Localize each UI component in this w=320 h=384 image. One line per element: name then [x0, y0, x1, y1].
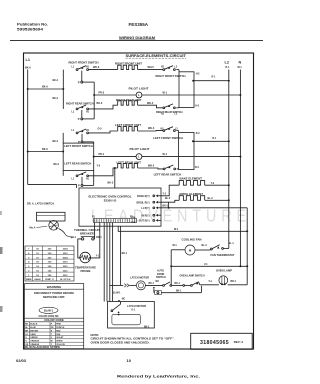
svg-text:BL/W-1: BL/W-1 — [113, 293, 122, 295]
svg-text:OVEN LAMP: OVEN LAMP — [216, 269, 232, 273]
door latch cam mechanism — [49, 221, 59, 231]
svg-text:DISCONNECT POWER BEFORE: DISCONNECT POWER BEFORE — [34, 291, 74, 295]
svg-text:BLUE: BLUE — [30, 327, 36, 329]
wire BK-1 from control down to latch motor — [121, 226, 128, 285]
header model number FES355A — [129, 22, 149, 27]
node L1 label — [25, 58, 31, 69]
svg-text:COLOR CODE: COLOR CODE — [44, 318, 64, 322]
switch box A right front switch text — [156, 74, 186, 78]
svg-text:P: P — [78, 140, 80, 144]
svg-text:RIGHT REAR SWITCH: RIGHT REAR SWITCH — [66, 101, 94, 105]
resistor right rear surface unit — [118, 101, 138, 105]
wire connector to thermal breaker — [94, 223, 96, 239]
latch assembly box — [108, 302, 155, 329]
wire bake element to L2 bus — [205, 183, 230, 186]
svg-text:LEFT REAR SWITCH: LEFT REAR SWITCH — [154, 172, 182, 176]
svg-text:W-1: W-1 — [163, 153, 168, 156]
svg-text:BK-1: BK-1 — [175, 283, 181, 285]
svg-text:BK-2: BK-2 — [108, 182, 114, 185]
svg-text:NOTE:: NOTE: — [91, 333, 100, 337]
svg-text:OUT R(Y): OUT R(Y) — [139, 220, 150, 223]
wire right front switch to unit — [89, 66, 118, 69]
svg-text:BK-2: BK-2 — [53, 98, 59, 100]
svg-text:BK-1: BK-1 — [149, 283, 155, 285]
svg-text:7 RB: 7 RB — [131, 222, 136, 224]
svg-text:OVEN LAMP SWITCH: OVEN LAMP SWITCH — [180, 273, 205, 277]
svg-text:BL-3: BL-3 — [202, 245, 208, 247]
svg-text:BK-6: BK-6 — [42, 148, 48, 151]
svg-text:LEFT FRONT SWITCH: LEFT FRONT SWITCH — [153, 136, 183, 140]
label BL/W-1 at bundle — [113, 293, 122, 295]
header WIRING DIAGRAM title — [119, 35, 156, 40]
svg-text:02/03: 02/03 — [16, 358, 27, 363]
resistor left front surface unit — [118, 127, 138, 131]
wire box B2 to L2 bus — [192, 138, 230, 142]
door latch squiggle arrow — [59, 229, 74, 239]
footer rendered-by line — [117, 375, 200, 379]
wire bundle from connector to latch assembly — [104, 223, 112, 302]
wire P rear left group to pilot rail — [83, 171, 94, 186]
label BK-3 left group — [54, 164, 60, 166]
fan thermostat label — [211, 253, 235, 257]
svg-text:ORANGE: ORANGE — [30, 343, 39, 346]
svg-text:318045065: 318045065 — [200, 340, 229, 346]
label BK-2 near right group lower — [53, 98, 59, 100]
svg-text:5995365694: 5995365694 — [17, 27, 44, 32]
svg-text:RED: RED — [56, 330, 61, 332]
wire bake relay to bake element — [161, 185, 179, 196]
svg-text:BK-3: BK-3 — [97, 102, 103, 105]
switch S1 pilot terminal P (front) — [78, 71, 83, 85]
svg-text:P: P — [78, 184, 80, 188]
lamp pilot light left — [136, 154, 142, 160]
svg-text:3321: 3321 — [63, 266, 69, 268]
svg-text:L1: L1 — [26, 58, 30, 62]
wire gauge table — [25, 246, 74, 281]
auto door switch Q1 — [163, 282, 172, 286]
wire P front to pilot rail — [83, 81, 94, 83]
svg-text:3321: 3321 — [63, 270, 69, 272]
svg-text:BK-3: BK-3 — [54, 164, 60, 166]
svg-text:TEMP °C: TEMP °C — [45, 279, 55, 281]
label BK-2 left group — [53, 141, 59, 143]
connector chevrons before latch motor — [124, 284, 129, 288]
watermark LEADVENTURE — [91, 206, 251, 226]
wire right rear unit to L2 switch — [138, 102, 163, 108]
oven lamp LP1 — [219, 276, 228, 285]
svg-text:3321: 3321 — [63, 253, 69, 255]
switch box B2 left rear switch text — [154, 172, 182, 176]
svg-text:OVEN DOOR CLOSED AND UNLOCKED.: OVEN DOOR CLOSED AND UNLOCKED. — [91, 340, 150, 344]
door latch switch body — [37, 212, 66, 221]
switch S3 L2-side contact — [161, 127, 179, 132]
header publication number text — [17, 22, 48, 32]
colour code table — [25, 322, 84, 349]
switch S4 left rear switch (left half) — [72, 172, 90, 181]
part number box — [191, 333, 253, 349]
latch motor M2 label — [130, 276, 149, 280]
wire oven lamp to right rail — [228, 281, 248, 285]
nc loop below lamp switch — [153, 286, 202, 295]
oven lamp switch Q2 — [183, 282, 200, 287]
svg-text:RIGHT FRONT SWITCH: RIGHT FRONT SWITCH — [156, 74, 186, 78]
svg-text:SWITCH: SWITCH — [156, 276, 166, 279]
wire probe to connector Y-1 — [90, 223, 100, 258]
wire cooling fan branch — [171, 245, 185, 250]
wire left rail of right switch group — [62, 70, 64, 109]
switch S4 pilot terminal P (rear) — [78, 177, 83, 188]
svg-text:W: W — [51, 341, 53, 343]
svg-text:BAKE ELEMENT: BAKE ELEMENT — [180, 177, 203, 181]
svg-text:WARNING: WARNING — [47, 285, 62, 289]
svg-text:Y-5: Y-5 — [97, 165, 101, 168]
svg-text:LEFT FRONT SWITCH: LEFT FRONT SWITCH — [64, 144, 93, 148]
svg-text:WH-2: WH-2 — [148, 165, 155, 168]
svg-text:BL-1: BL-1 — [229, 243, 235, 245]
svg-text:CIRCUIT SHOWN WITH ALL CONTROL: CIRCUIT SHOWN WITH ALL CONTROLS SET TO “… — [91, 337, 175, 341]
switch box B left rear switch text — [64, 162, 91, 166]
svg-text:GAGE: GAGE — [34, 278, 41, 281]
switch box B left front switch text — [64, 144, 93, 148]
label BK-2 near right group upper — [53, 80, 59, 82]
wire L1 relay feed across to right rail — [161, 202, 247, 209]
svg-text:RIGHT REAR SWITCH: RIGHT REAR SWITCH — [156, 110, 183, 114]
latch assembly inner cam box — [112, 314, 140, 325]
svg-text:ES300 US: ES300 US — [104, 199, 117, 203]
latch assembly label — [127, 304, 146, 311]
switch S2 L2-side contact — [161, 104, 178, 116]
svg-text:BK-1: BK-1 — [176, 290, 182, 292]
wire pilot rail vertical — [93, 82, 95, 119]
latch assembly switch — [111, 302, 121, 312]
svg-text:WIRE: WIRE — [26, 279, 32, 281]
svg-text:Rendered by LeadVenture, Inc.: Rendered by LeadVenture, Inc. — [117, 375, 200, 379]
latch motor M2 — [129, 281, 162, 290]
svg-text:VIOLET: VIOLET — [56, 337, 64, 339]
lamp pilot light right — [136, 92, 142, 98]
resistor right front unit label — [115, 62, 142, 66]
svg-text:P: P — [78, 117, 80, 121]
svg-text:UL STYLE: UL STYLE — [60, 279, 71, 281]
thermal circuit breaker CB1 label — [74, 228, 100, 235]
svg-text:3321: 3321 — [63, 262, 69, 264]
svg-text:GREEN: GREEN — [30, 337, 38, 339]
wire W-1 from control to right rail — [118, 226, 248, 232]
svg-text:BROIL R(Y): BROIL R(Y) — [137, 201, 150, 204]
lamp pilot light (left) label — [130, 147, 150, 151]
svg-text:BROWN: BROWN — [30, 330, 38, 332]
wire V-1 neutral tie — [170, 264, 248, 267]
footer date — [16, 358, 27, 363]
svg-text:WH-4: WH-4 — [147, 102, 154, 105]
wire pilot light circuit PR-3 — [94, 92, 241, 96]
svg-text:FES355A: FES355A — [129, 22, 149, 27]
label BK-1 latch box — [144, 326, 150, 328]
svg-text:10: 10 — [127, 358, 132, 363]
warning and colour code block frame — [25, 284, 84, 349]
electronic oven control box U1 — [79, 188, 161, 226]
wire left front unit to L2 switch — [138, 127, 163, 131]
svg-text:N: N — [239, 61, 242, 65]
svg-text:BL/W-1: BL/W-1 — [44, 308, 54, 312]
svg-text:LATCH MOTOR: LATCH MOTOR — [130, 276, 149, 280]
svg-text:GRAY: GRAY — [30, 333, 36, 336]
oven lamp switch label — [180, 273, 205, 277]
resistor bake element label — [180, 177, 203, 181]
cooling fan motor M1 — [185, 245, 195, 255]
wire broil relay to broil element — [161, 198, 179, 202]
wire left rail lower of left group — [62, 171, 64, 176]
svg-text:W-1: W-1 — [173, 245, 178, 247]
wire right rail vertical — [246, 208, 248, 285]
switch S1 right front switch label — [69, 60, 99, 64]
switch S3 terminal labels — [72, 130, 90, 132]
svg-text:BK-2: BK-2 — [163, 205, 169, 207]
electronic oven control title — [89, 194, 132, 202]
svg-text:5304: 5304 — [63, 256, 69, 259]
switch S2 pilot terminal P (rear) — [78, 110, 83, 121]
wire pilot light circuit PR-1 — [94, 153, 242, 157]
svg-text:BLACK: BLACK — [30, 323, 38, 326]
switch S1 right front switch (left half) — [76, 66, 88, 71]
switch S3 pilot terminal P (front) — [78, 134, 83, 144]
svg-text:BK-6: BK-6 — [25, 67, 31, 70]
svg-text:WH-6: WH-6 — [93, 66, 100, 69]
node L2 label — [225, 61, 230, 69]
note text block — [91, 333, 175, 344]
svg-text:BREAKER: BREAKER — [80, 231, 94, 235]
wire lamp switch to oven lamp — [200, 281, 219, 285]
label No.4 with pointer — [30, 225, 48, 229]
resistor bake element — [179, 181, 204, 186]
svg-text:No.4: No.4 — [30, 225, 36, 229]
svg-text:BK-2: BK-2 — [53, 80, 59, 82]
wire door switch to lamp switch — [172, 283, 183, 285]
svg-text:3321: 3321 — [63, 275, 69, 277]
switch S4 L2-side contact — [163, 165, 199, 170]
thermal circuit breaker CB1 — [73, 236, 103, 240]
resistor left front unit label — [115, 123, 141, 127]
svg-text:DR. A. LATCH SWITCH: DR. A. LATCH SWITCH — [27, 202, 54, 206]
wire P front left group to pilot rail — [83, 142, 94, 143]
svg-text:BK-1: BK-1 — [122, 253, 128, 255]
node junction L1 bus to right group — [27, 86, 65, 90]
wire BK-2 from unit wire down to control — [108, 168, 115, 188]
connector P1 ribbon on oven control — [92, 217, 137, 223]
svg-text:BAKE R(Y): BAKE R(Y) — [137, 195, 150, 198]
svg-text:L2: L2 — [225, 61, 229, 65]
oven lamp label — [216, 269, 232, 273]
svg-text:PR-3: PR-3 — [99, 92, 105, 95]
wire cooling fan feed vertical — [170, 250, 172, 286]
wire S4 contact to box B2 — [177, 168, 179, 170]
header horizontal rule — [10, 39, 263, 41]
svg-text:BK-2: BK-2 — [53, 141, 59, 143]
svg-text:SERVICING UNIT.: SERVICING UNIT. — [43, 295, 65, 299]
temperature probe label — [75, 266, 96, 273]
temperature probe RT1 — [80, 252, 91, 263]
switch box B2 left front switch text — [153, 133, 200, 140]
node junction L1 bus to left group — [27, 148, 64, 152]
svg-text:NC: NC — [122, 298, 126, 300]
lamp pilot light (right) label — [129, 87, 149, 91]
wire S2 contact to box A — [176, 105, 199, 107]
surface-elements-circuit title — [126, 54, 187, 58]
resistor left rear unit label — [117, 161, 142, 165]
wire fan to thermostat — [195, 245, 211, 250]
part number text — [200, 340, 244, 346]
svg-text:LATCH MOTOR: LATCH MOTOR — [127, 304, 146, 308]
node junction BK-2 feed to oven control — [114, 167, 116, 169]
svg-text:3354: 3354 — [63, 248, 69, 251]
svg-text:L1 R(Y): L1 R(Y) — [141, 207, 150, 210]
wire L2 bus — [225, 70, 229, 249]
switch box A (right front/rear switch body) — [179, 72, 194, 108]
svg-text:PILOT LIGHT: PILOT LIGHT — [129, 87, 149, 91]
fan thermostat switch — [211, 243, 235, 250]
node pilot rail junction left group — [93, 156, 95, 158]
wire left rear unit to L2 switch — [138, 165, 164, 169]
wire S1 contact to box A — [176, 70, 179, 72]
scan artifact marks — [0, 211, 3, 312]
svg-text:ELECTRONIC OVEN CONTROL: ELECTRONIC OVEN CONTROL — [89, 194, 132, 198]
svg-text:O-5: O-5 — [98, 128, 103, 131]
svg-text:BL/R BLACK/RED STRIPE: BL/R BLACK/RED STRIPE — [25, 346, 61, 349]
switch box B (left front/rear switch body) — [63, 143, 93, 170]
switch S2 right rear switch label — [66, 101, 94, 105]
wire right rear switch to unit — [89, 102, 118, 109]
svg-text:W-1: W-1 — [163, 92, 168, 95]
svg-text:BK-6: BK-6 — [42, 86, 48, 89]
resistor left rear surface unit — [118, 164, 138, 168]
svg-text:WH-5: WH-5 — [148, 66, 155, 69]
svg-text:IN R(Y): IN R(Y) — [142, 214, 150, 217]
switch box A right rear switch text — [156, 110, 183, 114]
switch S1 terminal labels — [72, 67, 90, 69]
switch box B2 (left L2-side body) — [179, 133, 194, 170]
wire left rail upper of left group — [62, 133, 64, 143]
wire breaker to temperature probe — [78, 239, 82, 258]
node N label — [238, 61, 243, 69]
svg-text:BK-1: BK-1 — [96, 237, 102, 239]
wire S3 contact to box B2 — [176, 131, 178, 133]
wire left rear switch to unit — [89, 165, 118, 176]
wire right front unit to L2 switch — [138, 66, 163, 69]
svg-text:ORANGE: ORANGE — [30, 340, 39, 343]
svg-text:COOLING FAN: COOLING FAN — [182, 238, 202, 242]
auto door switch label — [156, 270, 166, 280]
cooling fan motor M1 label — [182, 238, 202, 242]
svg-text:P: P — [78, 80, 80, 84]
svg-text:PR-1: PR-1 — [99, 153, 105, 156]
node pilot rail junction — [93, 94, 95, 96]
label NC at latch box — [118, 298, 126, 302]
wire latch motor feed — [110, 284, 123, 286]
switch S1 L2-side contact — [161, 66, 178, 71]
footer page number — [127, 358, 132, 363]
svg-text:W-1: W-1 — [174, 229, 179, 231]
wire broil element to L2 bus — [205, 198, 230, 201]
svg-text:PURPLE: PURPLE — [56, 327, 65, 329]
svg-text:WH-3: WH-3 — [148, 127, 155, 130]
svg-text:NO: NO — [156, 281, 160, 283]
switch S3 left front switch (left half) — [76, 129, 88, 134]
wire box A to L2 bus (R-1) — [192, 74, 230, 82]
wire N bus — [239, 70, 241, 267]
svg-text:PROBE: PROBE — [81, 269, 91, 273]
svg-text:SURFACE-ELEMENTS-CIRCUIT: SURFACE-ELEMENTS-CIRCUIT — [126, 54, 187, 58]
svg-text:YELLOW: YELLOW — [56, 344, 65, 346]
svg-text:WIRING DIAGRAM: WIRING DIAGRAM — [119, 35, 156, 40]
svg-text:FAN THERMOSTAT: FAN THERMOSTAT — [211, 253, 235, 257]
outer border frame — [24, 53, 254, 349]
svg-text:W-1: W-1 — [238, 67, 243, 69]
svg-text:BL-2: BL-2 — [165, 198, 171, 200]
svg-text:BK-1: BK-1 — [144, 326, 150, 328]
svg-text:RIGHT FRONT SWITCH: RIGHT FRONT SWITCH — [69, 60, 99, 64]
resistor broil element label — [180, 192, 204, 196]
wire left front switch to unit — [89, 128, 118, 133]
wire L1 bus — [28, 70, 77, 189]
switch S2 right rear switch (left half) — [72, 105, 90, 113]
svg-text:PILOT LIGHT: PILOT LIGHT — [130, 147, 150, 151]
svg-text:TAN: TAN — [56, 333, 61, 336]
door latch switch label — [27, 202, 54, 206]
svg-text:PINK: PINK — [56, 324, 61, 326]
wire P rear to pilot rail — [83, 118, 94, 120]
svg-text:BL-2: BL-2 — [208, 198, 214, 200]
resistor right front surface unit — [118, 65, 138, 69]
svg-text:BROIL ELEMENT: BROIL ELEMENT — [180, 192, 204, 196]
svg-text:LEFT REAR SWITCH: LEFT REAR SWITCH — [64, 162, 91, 166]
svg-text:WHITE: WHITE — [56, 341, 63, 343]
resistor right rear unit label — [116, 98, 142, 102]
relay contacts inside oven control — [131, 195, 162, 224]
latch assembly NO contact — [117, 311, 119, 315]
svg-text:BR-1: BR-1 — [231, 281, 237, 283]
resistor broil element — [179, 196, 204, 201]
svg-text:REV: A: REV: A — [234, 340, 244, 344]
